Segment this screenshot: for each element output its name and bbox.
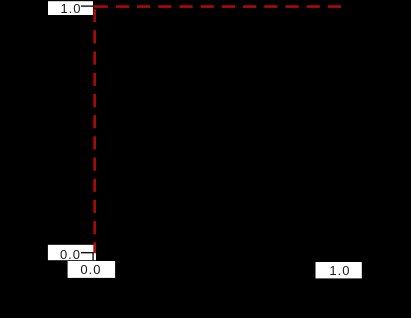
svg-text:1.0: 1.0 xyxy=(60,1,81,16)
svg-text:1.0: 1.0 xyxy=(329,263,350,278)
svg-text:0.0: 0.0 xyxy=(60,247,81,262)
svg-text:0.0: 0.0 xyxy=(80,262,101,277)
